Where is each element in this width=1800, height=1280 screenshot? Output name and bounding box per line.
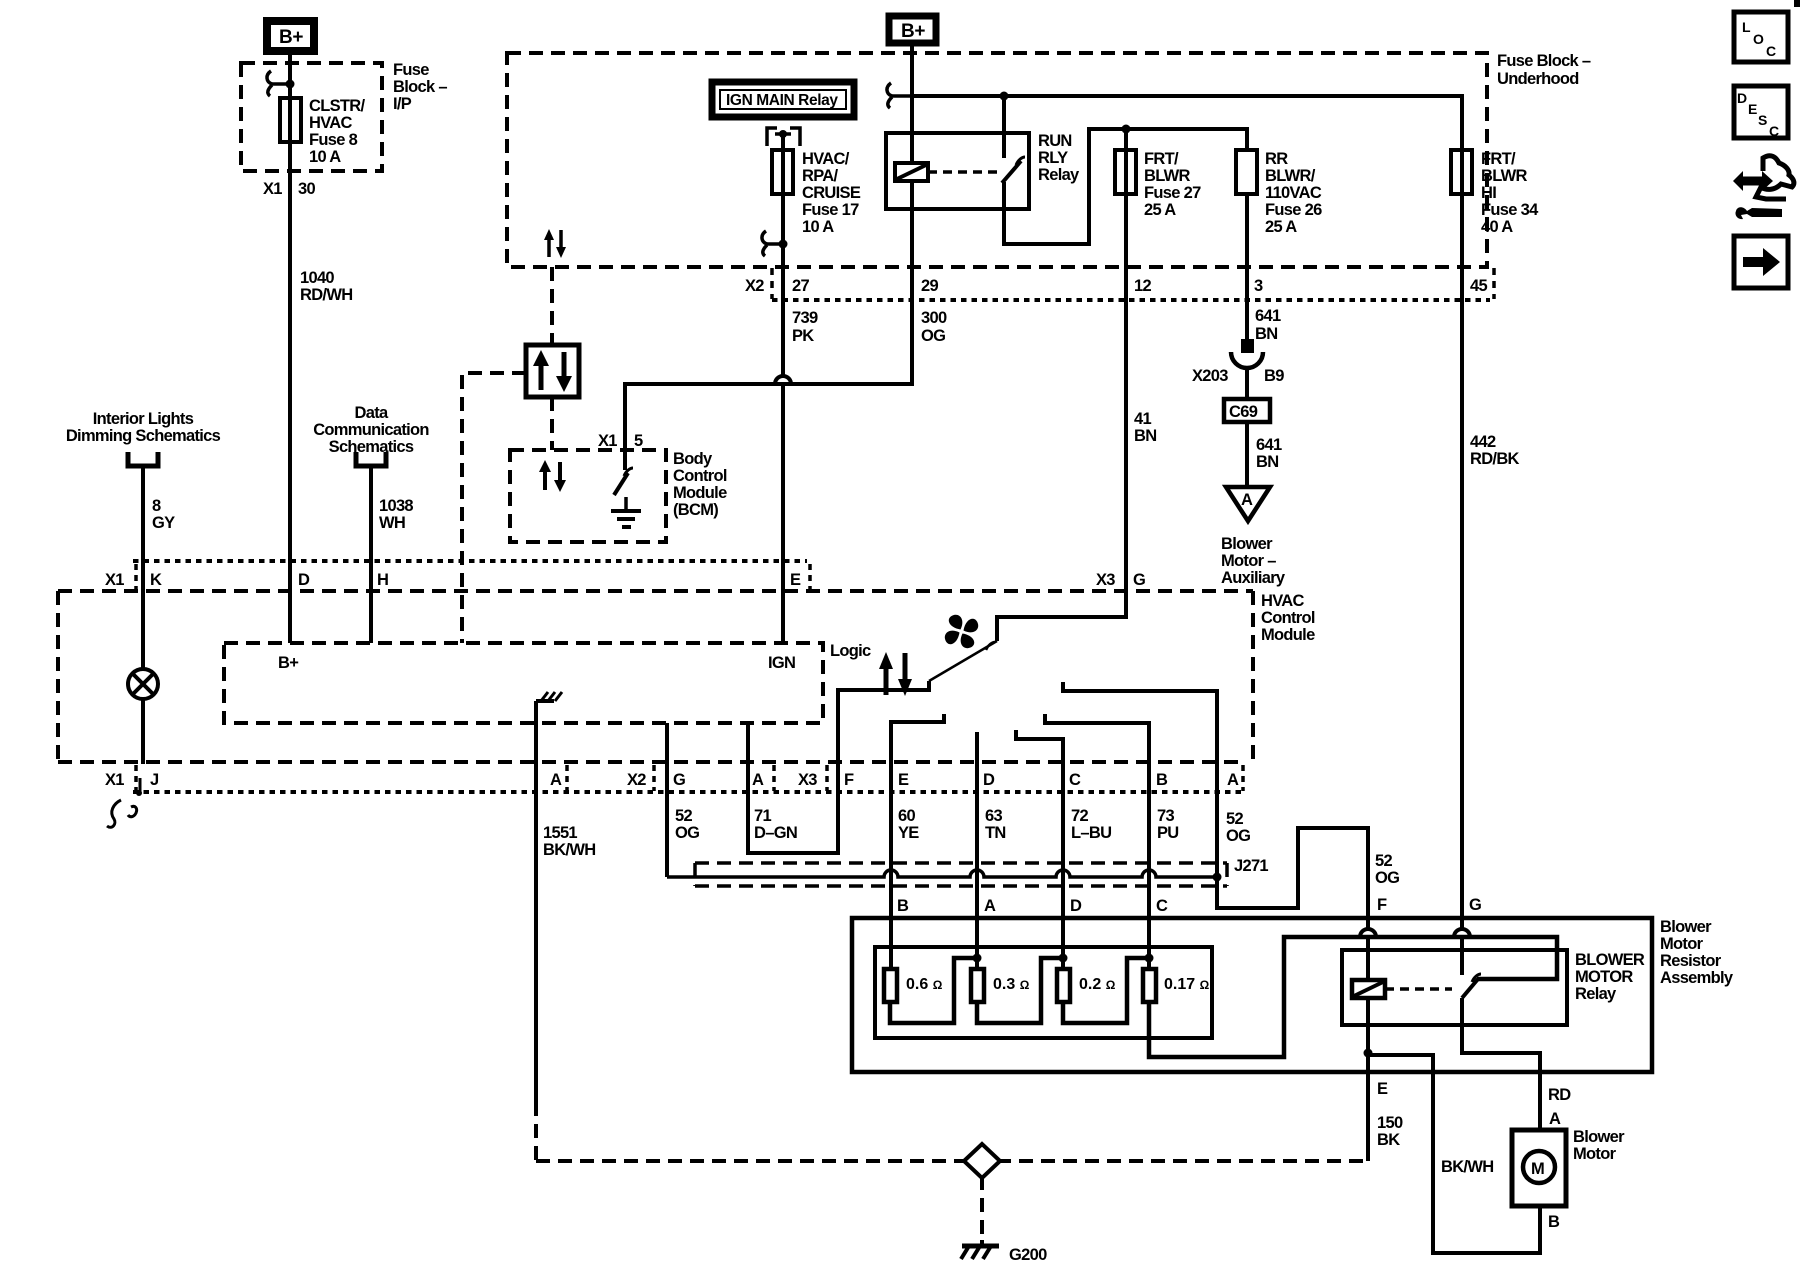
svg-text:OG: OG [921,327,945,345]
wire 1040 RD/WH [300,269,352,304]
resistor R 0.17 ohm [1143,969,1210,1002]
svg-text:C: C [1766,43,1776,59]
icon forward arrow box [1734,236,1788,288]
jumper 0.6 to wire A [890,958,977,1023]
triangle circuit continuation A [1226,487,1270,521]
svg-text:OG: OG [1226,827,1250,845]
wire 0.17 output to relay contact [1149,937,1557,1057]
connector X1 pin 5 labels [598,432,643,450]
svg-text:Dimming Schematics: Dimming Schematics [66,427,221,445]
switch blade tip tick [986,642,995,650]
svg-text:PK: PK [792,327,814,345]
svg-text:641: 641 [1256,436,1282,454]
svg-text:G: G [1133,571,1145,589]
svg-text:K: K [150,571,162,589]
node jumper A [973,954,982,963]
relay output bracket [767,128,800,150]
connector X1 module pin labels [105,571,801,589]
svg-text:RD/WH: RD/WH [300,286,352,304]
resistor R 0.2 ohm [1057,969,1116,1002]
svg-text:X1: X1 [105,571,124,589]
label 52 OG at pin F [1375,852,1399,887]
svg-text:10 A: 10 A [309,148,341,166]
relay coil blower motor [1352,980,1385,998]
switch BCM ground control blade [614,468,633,495]
box serial data arrow symbol [526,345,579,397]
svg-text:8: 8 [152,497,161,515]
wire 150 BK labels [1377,1114,1403,1149]
svg-text:IGN: IGN [768,654,795,672]
svg-text:Fuse 26: Fuse 26 [1265,201,1322,219]
svg-text:Control: Control [1261,609,1315,627]
svg-text:1040: 1040 [300,269,334,287]
resistor R 0.6 ohm [884,969,943,1002]
wire 63 TN labels [985,807,1006,842]
label RD / pin A [1548,1086,1571,1128]
svg-text:0.3 Ω: 0.3 Ω [993,976,1030,993]
wire 641 BN labels (fuse 26) [1255,307,1281,343]
svg-text:29: 29 [921,277,938,295]
svg-text:HVAC: HVAC [309,114,353,132]
svg-text:HVAC/: HVAC/ [802,150,850,168]
lamp dimming indicator [128,669,158,699]
icon navigate arrows [1733,156,1794,219]
svg-text:Module: Module [673,484,727,502]
wire 300 OG to BCM switch [625,209,912,470]
svg-text:Module: Module [1261,626,1315,644]
svg-text:27: 27 [792,277,809,295]
svg-text:A: A [1227,771,1239,789]
splice clip above pin 27 [762,231,788,256]
svg-text:RR: RR [1265,150,1288,168]
svg-text:40 A: 40 A [1481,218,1513,236]
node J271 to pin A wire [1213,873,1222,882]
svg-text:B+: B+ [279,27,303,48]
svg-text:B+: B+ [278,654,298,672]
wire B+ vertical to RUN RLY coil [910,46,914,163]
svg-text:X2: X2 [745,277,764,295]
svg-text:Fuse: Fuse [393,61,429,79]
svg-text:OG: OG [675,824,699,842]
svg-text:442: 442 [1470,433,1496,451]
svg-text:Block –: Block – [393,78,447,96]
header Data Communication Schematics [313,404,429,456]
svg-text:BK/WH: BK/WH [543,841,595,859]
relay switch blade [1002,157,1025,183]
svg-text:L: L [1742,19,1751,35]
wire 641 BN lower [1247,422,1282,486]
connector underhood pin labels [745,277,1487,295]
svg-text:I/P: I/P [393,95,412,113]
svg-text:B: B [1156,771,1168,789]
wire 442 RD/BK labels [1470,433,1520,468]
svg-text:73: 73 [1157,807,1174,825]
svg-text:Underhood: Underhood [1497,70,1579,88]
connector X1 module dotted row [133,559,807,563]
svg-text:X203: X203 [1192,367,1228,385]
off-page bracket interior lights [128,452,158,466]
svg-text:X1: X1 [263,180,282,198]
wire 300 OG labels [921,309,947,345]
off-page bracket data communication [356,452,386,466]
svg-text:E: E [1377,1080,1388,1098]
svg-text:0.17 Ω: 0.17 Ω [1164,976,1210,993]
wire coil to ground E [1366,998,1370,1161]
svg-text:IGN MAIN Relay: IGN MAIN Relay [726,92,838,109]
svg-text:FRT/: FRT/ [1481,150,1516,168]
connector pin 45 separator [1492,268,1496,299]
svg-text:D: D [983,771,995,789]
header Interior Lights Dimming Schematics [66,410,221,445]
svg-text:25 A: 25 A [1265,218,1297,236]
connector module bottom dashed row [58,760,1246,764]
svg-text:F: F [1377,896,1387,914]
power symbol B+ (I/P feed) [267,21,314,51]
svg-text:BN: BN [1255,325,1277,343]
svg-text:150: 150 [1377,1114,1403,1132]
svg-text:Data: Data [355,404,389,422]
svg-text:60: 60 [898,807,915,825]
wire 1038 WH [371,468,413,643]
svg-text:C69: C69 [1229,403,1258,421]
svg-text:Motor: Motor [1660,935,1704,953]
wire drop to fuse 27 [1124,129,1128,150]
label Blower Motor Resistor Assembly [1660,918,1734,987]
relay link dashed [928,170,1000,174]
splice hook below pin J [107,778,142,827]
switch contact E with stub [891,714,944,969]
svg-text:A: A [984,897,996,915]
svg-text:300: 300 [921,309,947,327]
svg-text:X3: X3 [1096,571,1115,589]
svg-text:O: O [1753,31,1764,47]
wire relay blade to motor RD [1462,998,1540,1130]
svg-text:X1: X1 [598,432,617,450]
node coil ground junction [1364,1049,1373,1058]
svg-text:Communication: Communication [313,421,429,439]
wire BK/WH motor return [1368,1055,1540,1253]
label BLOWER MOTOR Relay [1575,951,1645,1003]
svg-text:Auxiliary: Auxiliary [1221,569,1286,587]
resistor R 0.3 ohm [971,969,1030,1002]
svg-text:A: A [1241,491,1253,509]
svg-text:D: D [1737,90,1747,106]
svg-text:Fuse 17: Fuse 17 [802,201,859,219]
svg-text:HVAC: HVAC [1261,592,1305,610]
dashed ground bus right [997,1159,1368,1163]
fuse F8 CLSTR/HVAC 10A [280,97,365,166]
svg-text:BK/WH: BK/WH [1441,1158,1493,1176]
module BCM dashed box [510,450,666,542]
connector underhood dotted row [772,298,1490,302]
svg-text:RD: RD [1548,1086,1571,1104]
svg-text:J: J [150,771,159,789]
svg-text:Resistor: Resistor [1660,952,1722,970]
relay BLOWER MOTOR box [1342,950,1567,1025]
connector C69 box [1224,399,1270,422]
svg-text:RD/BK: RD/BK [1470,450,1520,468]
motor blower symbol [1523,1151,1555,1183]
svg-text:G: G [673,771,685,789]
svg-text:0.2 Ω: 0.2 Ω [1079,976,1116,993]
fuse F17 HVAC/RPA/CRUISE 10A [772,150,861,236]
relay coil RUN RLY [895,163,928,181]
wire 1551 BK/WH [536,715,595,1161]
svg-text:Logic: Logic [830,642,871,660]
svg-text:FRT/: FRT/ [1144,150,1179,168]
fuse F27 FRT/BLWR 25A [1115,150,1201,219]
fan symbol [945,615,978,648]
node fuse 27 tap [1122,125,1131,134]
arrows data indicator in BCM [545,462,560,490]
wire 52 OG (X2-G) to splice J271 [667,723,699,877]
svg-text:72: 72 [1071,807,1088,825]
svg-text:PU: PU [1157,824,1179,842]
svg-text:YE: YE [898,824,919,842]
svg-text:C: C [1156,897,1168,915]
fuse F34 FRT/BLWR HI 40A [1451,150,1539,236]
svg-text:25 A: 25 A [1144,201,1176,219]
page corner mark [1794,0,1800,7]
wire X203 to C69 [1245,369,1249,399]
svg-text:F: F [844,771,854,789]
svg-text:MOTOR: MOTOR [1575,968,1633,986]
svg-text:Blower: Blower [1660,918,1712,936]
svg-text:3: 3 [1254,277,1263,295]
svg-text:G: G [1469,896,1481,914]
wire B+ bus to Fuse 34 [912,96,1462,150]
svg-text:X1: X1 [105,771,124,789]
svg-text:GY: GY [152,514,175,532]
svg-text:BN: BN [1134,427,1156,445]
svg-text:L–BU: L–BU [1071,824,1111,842]
svg-text:B+: B+ [901,21,925,42]
dashed ground drop [980,1176,984,1240]
svg-text:M: M [1531,1160,1544,1178]
dashed link arrow box to BCM [550,397,554,450]
svg-text:RPA/: RPA/ [802,167,839,185]
node relay switch tap [1000,92,1009,101]
svg-text:Fuse Block –: Fuse Block – [1497,52,1591,70]
svg-text:RLY: RLY [1038,149,1068,167]
arrows module signal indicator [886,653,905,695]
splice diamond G200 bus [964,1144,1000,1178]
svg-text:CLSTR/: CLSTR/ [309,97,365,115]
motor blower box [1512,1130,1566,1206]
wire 739 PK labels [792,309,818,345]
svg-text:X3: X3 [798,771,817,789]
wire 72 L-BU labels [1071,807,1111,842]
svg-text:TN: TN [985,824,1006,842]
relay switch contact [1002,96,1006,158]
svg-text:5: 5 [634,432,643,450]
ground BCM internal [611,497,641,527]
svg-text:G200: G200 [1009,1246,1047,1264]
wire 73 PU labels [1157,807,1179,842]
power symbol B+ (underhood feed) [889,16,936,43]
wire 71 D-GN labels [754,807,797,842]
svg-text:RUN: RUN [1038,132,1072,150]
svg-text:E: E [790,571,801,589]
connector X1 separators [136,564,810,590]
svg-text:OG: OG [1375,869,1399,887]
resistor pack inner box [875,947,1212,1038]
svg-text:1551: 1551 [543,824,577,842]
svg-text:J271: J271 [1234,857,1268,875]
connector module bottom dotted row [133,790,1246,794]
svg-text:BN: BN [1256,453,1278,471]
svg-text:D: D [298,571,310,589]
svg-text:0.6 Ω: 0.6 Ω [906,976,943,993]
svg-text:71: 71 [754,807,771,825]
switch contact B with stub [1045,714,1149,969]
switch contact A and wire 52 OG to resistor pin F [1063,682,1376,980]
connector bottom pin labels [105,771,1239,789]
svg-text:Relay: Relay [1038,166,1080,184]
wire lamp to pin J [141,699,145,764]
svg-text:D–GN: D–GN [754,824,797,842]
svg-text:E: E [898,771,909,789]
label IGN MAIN Relay [712,82,854,117]
svg-text:Fuse 27: Fuse 27 [1144,184,1201,202]
svg-text:WH: WH [379,514,405,532]
switch blower speed: 41BN feed, blade and common to pin F and pin A jumper [997,150,1126,641]
wire 442 RD/BK fuse 34 to assembly pin G [1454,150,1470,975]
logic box dashed [224,643,823,723]
wire fuse 26 to X203 [1245,194,1249,340]
svg-text:E: E [1748,101,1757,117]
wire 8 GY [143,468,175,669]
jumper 0.2 to wire C [1063,958,1149,1023]
svg-text:52: 52 [1226,810,1243,828]
svg-text:H: H [377,571,388,589]
jumper 0.3 to wire D [977,958,1063,1023]
svg-text:A: A [550,771,562,789]
connector X1 pin 30 labels [263,180,315,198]
svg-text:739: 739 [792,309,818,327]
svg-text:Body: Body [673,450,713,468]
switch contact D stub [975,732,979,969]
svg-text:BLWR: BLWR [1144,167,1191,185]
svg-text:BK: BK [1377,1131,1400,1149]
relay link dashed blower [1385,987,1452,991]
module HVAC control module dashed box [58,591,1253,762]
splice J271 bus with hops [667,870,1217,877]
label Blower Motor [1573,1128,1625,1163]
svg-text:C: C [1069,771,1081,789]
splice clip at fuse 8 input [267,71,295,96]
connector X203 B9 inline [1192,339,1284,385]
svg-text:Schematics: Schematics [329,438,414,456]
svg-text:B: B [1548,1213,1560,1231]
wire B+ to Fuse 8 [288,55,292,643]
svg-text:B: B [897,897,909,915]
svg-text:41: 41 [1134,410,1151,428]
switch blower common to pin F and jumper to pin A [748,681,929,853]
svg-text:Fuse 34: Fuse 34 [1481,201,1539,219]
fuse block underhood dashed box [507,53,1487,267]
box blower motor resistor assembly [852,918,1652,1072]
svg-text:Fuse 8: Fuse 8 [309,131,358,149]
svg-text:Blower: Blower [1573,1128,1625,1146]
relay RUN RLY [886,132,1080,209]
label Fuse Block - I/P [393,61,447,113]
label Blower Motor - Auxiliary [1221,535,1286,587]
connector bottom separators [136,765,1243,791]
wire 41 BN labels [1134,410,1156,445]
svg-text:10 A: 10 A [802,218,834,236]
connector X2 separator [770,268,774,299]
ground G200 [961,1240,1047,1264]
switch blower blade [929,641,997,681]
node jumper D [1059,954,1068,963]
node jumper C [1145,954,1154,963]
svg-text:641: 641 [1255,307,1281,325]
dashed link arrow box to logic [462,373,526,643]
label HVAC Control Module [1261,592,1315,644]
svg-text:52: 52 [1375,852,1392,870]
icon LOC box [1734,12,1788,62]
arrows data indicator above arrow box [549,230,561,257]
label Fuse Block - Underhood [1497,52,1591,88]
connector X3 pin G labels (top) [1096,571,1145,589]
wire relay output to fuse 27 / fuse 26 [1004,129,1247,244]
svg-text:Assembly: Assembly [1660,969,1734,987]
svg-text:BLOWER: BLOWER [1575,951,1645,969]
svg-text:30: 30 [298,180,315,198]
svg-text:HI: HI [1481,184,1496,202]
dashed ground bus left [536,1159,967,1163]
wire 739 PK lower with hop [775,300,791,643]
svg-text:Blower: Blower [1221,535,1273,553]
relay blower switch blade [1462,974,1481,998]
svg-text:X2: X2 [627,771,646,789]
dashed link underhood to arrow box [550,267,554,345]
svg-text:Motor: Motor [1573,1145,1617,1163]
svg-text:B9: B9 [1264,367,1284,385]
svg-text:1038: 1038 [379,497,413,515]
svg-text:45: 45 [1470,277,1487,295]
wire fuse 17 to pin 27 [781,150,785,376]
svg-text:A: A [752,771,764,789]
svg-text:63: 63 [985,807,1002,825]
fuse F26 RR BLWR/110VAC 25A [1236,150,1322,236]
switch contact C with stub [1016,730,1063,969]
ground clip 1551 internal [536,692,562,715]
svg-text:Motor –: Motor – [1221,552,1276,570]
svg-text:Interior Lights: Interior Lights [93,410,194,428]
svg-text:12: 12 [1134,277,1151,295]
svg-text:52: 52 [675,807,692,825]
splice J271 dashed box [695,863,1227,886]
icon DESC box [1734,86,1788,139]
svg-text:A: A [1549,1110,1561,1128]
svg-text:D: D [1070,897,1082,915]
fuse block I/P dashed box [241,63,382,171]
svg-text:BLWR: BLWR [1481,167,1528,185]
svg-text:BLWR/: BLWR/ [1265,167,1316,185]
svg-text:S: S [1758,112,1767,128]
svg-text:CRUISE: CRUISE [802,184,861,202]
svg-text:(BCM): (BCM) [673,501,718,519]
svg-text:C: C [1769,123,1779,139]
splice clip on B+ bus [887,83,912,108]
svg-text:Relay: Relay [1575,985,1617,1003]
svg-text:110VAC: 110VAC [1265,184,1322,202]
label Body Control Module (BCM) [673,450,727,519]
resistor assembly pin labels [897,896,1481,915]
svg-text:Control: Control [673,467,727,485]
